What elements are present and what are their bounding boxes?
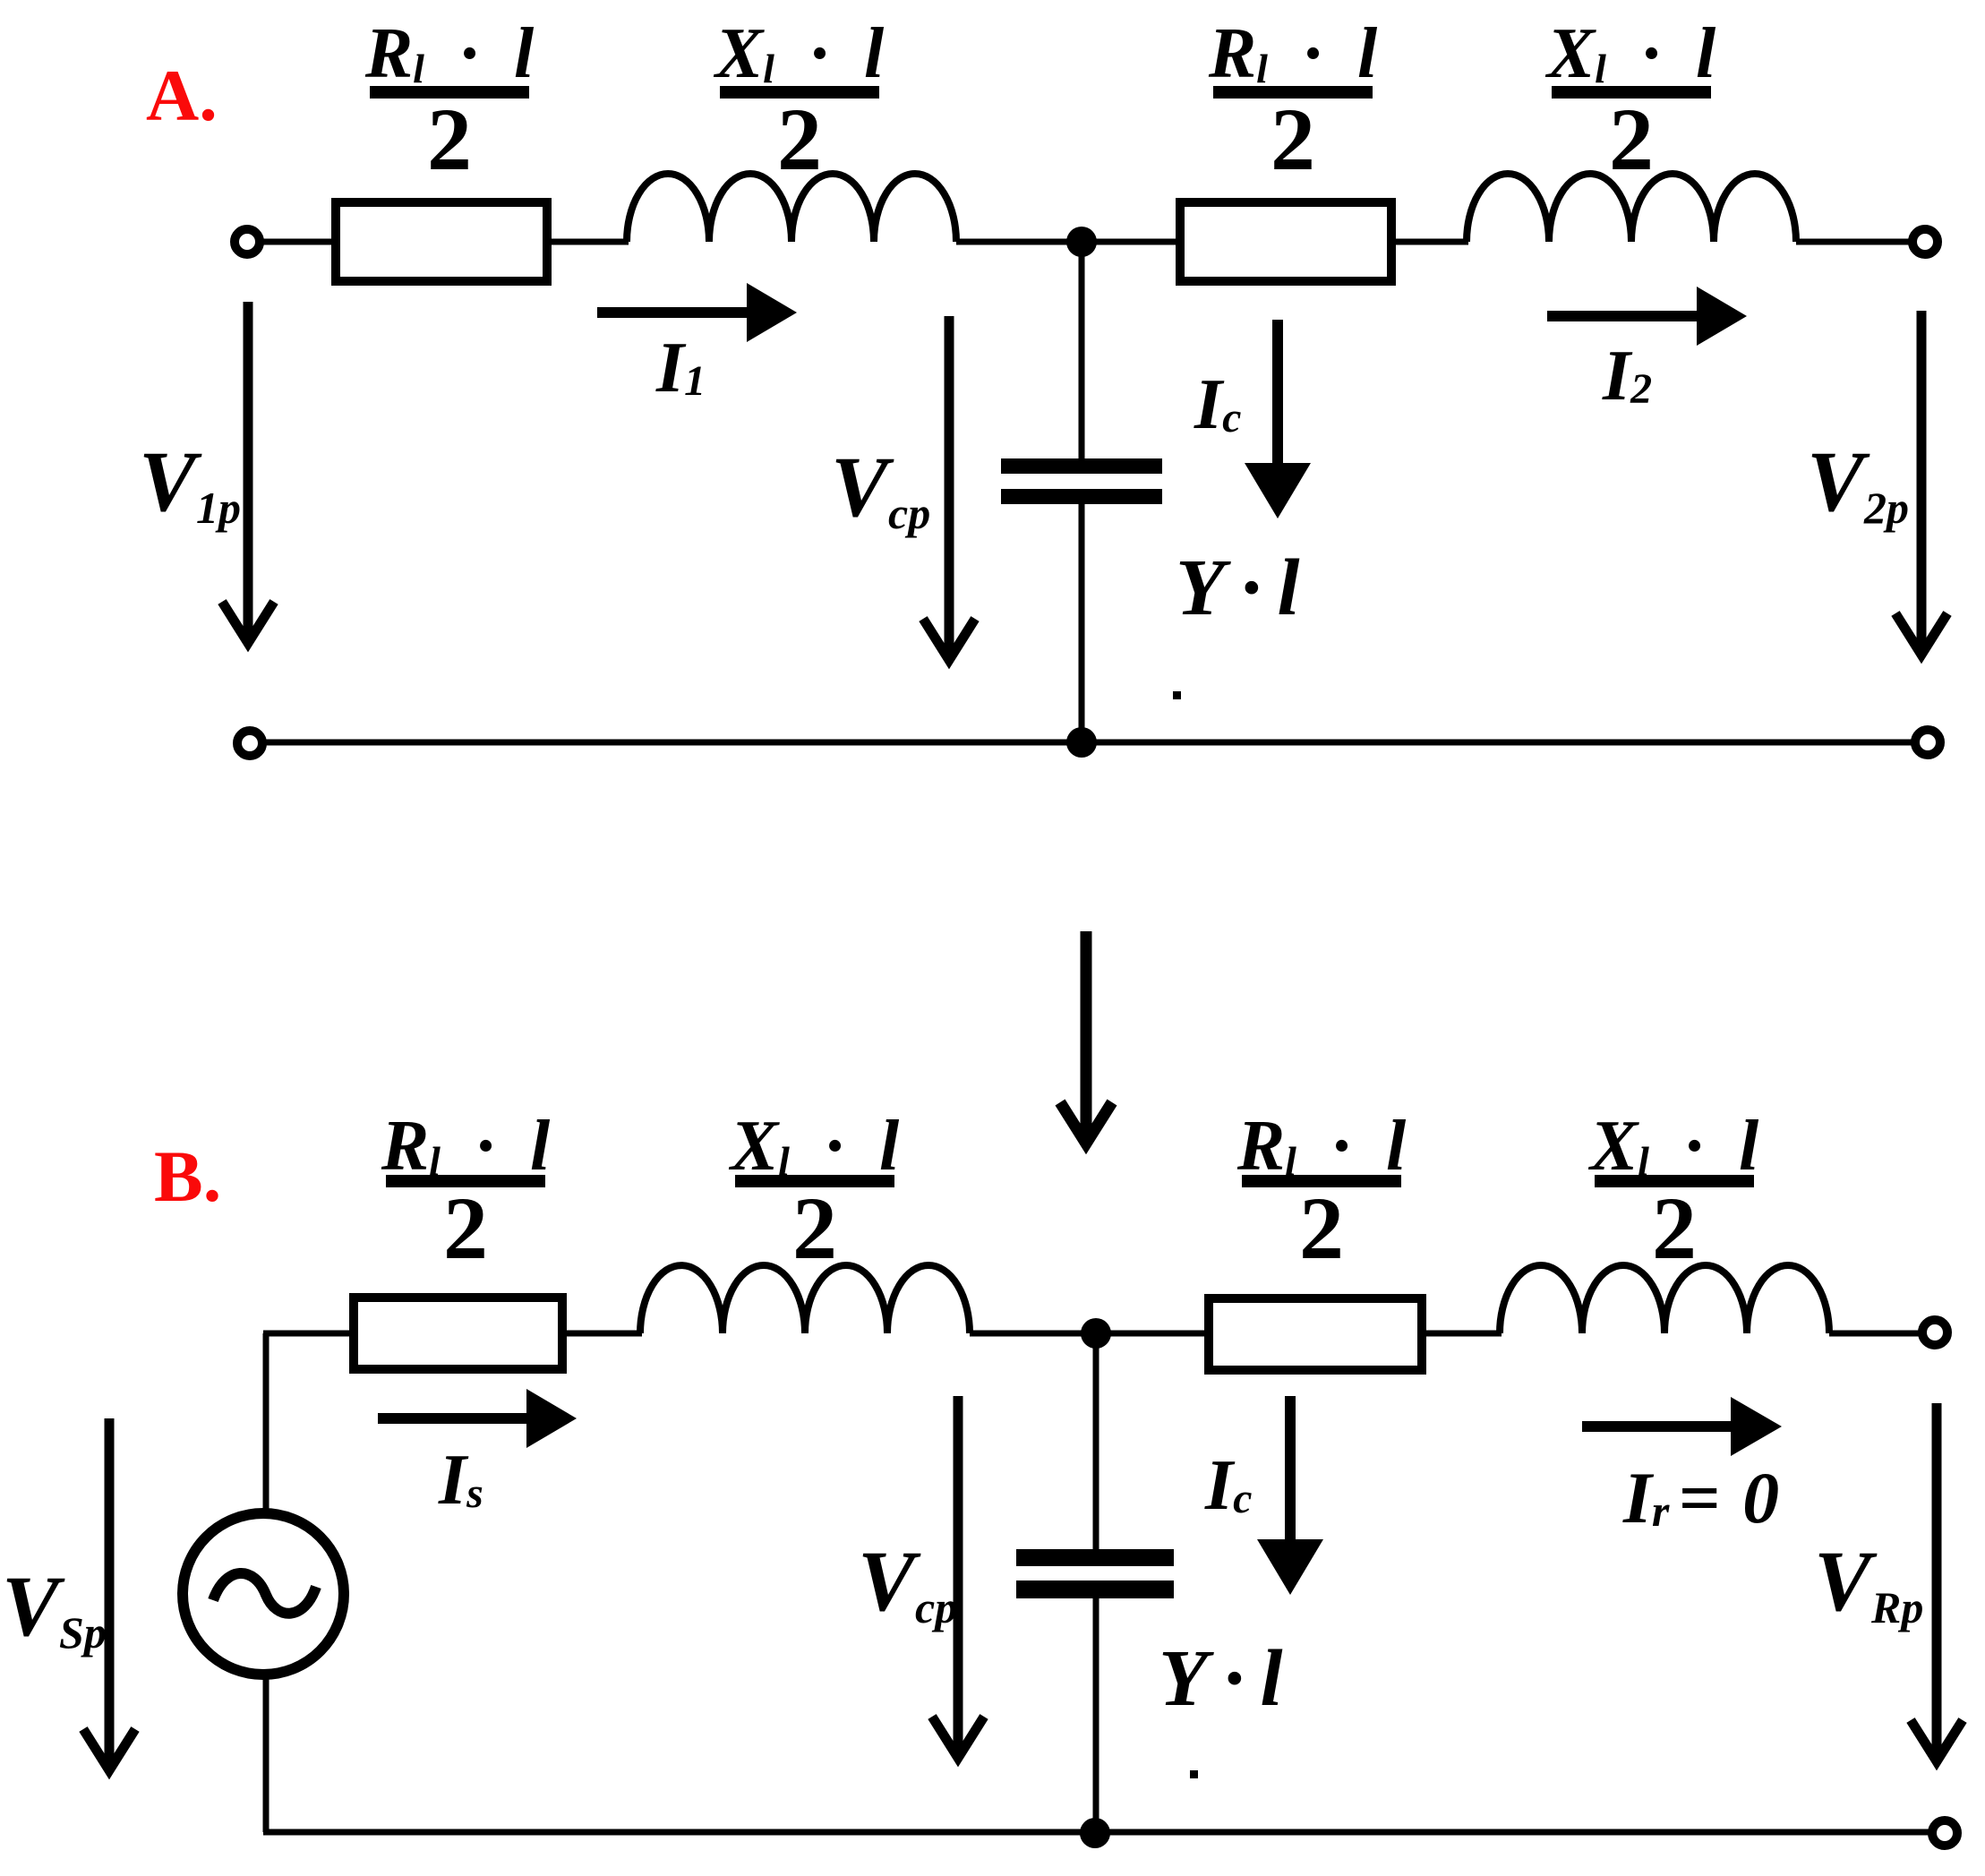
wire (B bottom rail)	[263, 1829, 1932, 1836]
resistor R1 (A, Rl·l/2 left)	[336, 202, 547, 281]
wire (B top rail to R3)	[263, 1331, 354, 1337]
svg-text:Ir=0: Ir=0	[1622, 1457, 1801, 1538]
arrow Vcp (A capacitor voltage)	[945, 316, 954, 660]
capacitor C2 top plate (B, Y·l)	[1016, 1549, 1174, 1566]
svg-text:2: 2	[792, 1178, 837, 1278]
terminal (A bottom-left)	[237, 731, 262, 756]
svg-text:Xl · l: Xl · l	[728, 1107, 900, 1186]
wire (A L2 to right terminal)	[1796, 239, 1912, 245]
wire (B shunt, node to capacitor)	[1093, 1333, 1099, 1551]
ac source sine wave	[213, 1573, 316, 1614]
svg-text:Rl · l: Rl · l	[1208, 14, 1378, 93]
wire (A bottom rail)	[264, 740, 1913, 746]
wire (A R2 to L2)	[1391, 239, 1468, 245]
arrow Vcp (B capacitor voltage)	[954, 1396, 963, 1758]
svg-text:B.: B.	[154, 1135, 221, 1217]
stray dot (A bottom)	[1173, 691, 1181, 699]
wire (A shunt, node to capacitor)	[1079, 242, 1085, 460]
svg-text:2: 2	[1299, 1178, 1344, 1278]
capacitor C2 bottom plate (B, Y·l)	[1016, 1580, 1174, 1598]
svg-text:2: 2	[427, 90, 472, 189]
wire (A capacitor to bottom rail)	[1079, 502, 1085, 742]
svg-text:Rl · l: Rl · l	[364, 14, 535, 93]
svg-text:Xl · l: Xl · l	[1587, 1107, 1759, 1186]
arrow Ir=0 (B receiving current)	[1582, 1421, 1731, 1432]
node (B top, shunt tap)	[1081, 1318, 1111, 1349]
svg-text:VSp: VSp	[2, 1558, 107, 1658]
node (B bottom rail junction)	[1080, 1818, 1110, 1848]
wire (B source to top rail, vertical)	[263, 1333, 270, 1513]
arrow Is (B source current)	[378, 1413, 526, 1424]
svg-text:Y · l: Y · l	[1159, 1634, 1283, 1723]
svg-text:Ic: Ic	[1204, 1446, 1252, 1525]
capacitor C1 bottom plate (A, Y·l)	[1001, 489, 1162, 504]
wire (B R4 to L4)	[1422, 1331, 1502, 1337]
wire (B L4 to right terminal)	[1829, 1331, 1922, 1337]
node (A top, shunt tap)	[1066, 227, 1097, 257]
svg-text:Ic: Ic	[1194, 365, 1241, 444]
svg-text:2: 2	[777, 90, 822, 189]
terminal (B bottom-right)	[1932, 1820, 1957, 1846]
node (A bottom rail junction)	[1066, 727, 1097, 758]
svg-text:Y · l: Y · l	[1176, 544, 1300, 632]
resistor R2 (A, Rl·l/2 right)	[1180, 202, 1391, 281]
wire (B L3 to node)	[970, 1331, 1209, 1337]
arrow Ic (A capacitor current)	[1272, 320, 1283, 475]
arrow VRp (B receiving voltage)	[1932, 1403, 1942, 1761]
stray dot (B bottom)	[1190, 1770, 1198, 1778]
ac source Vs (B, circle)	[183, 1513, 344, 1675]
svg-text:Xl · l: Xl · l	[1544, 14, 1716, 93]
arrow V2p (A right voltage)	[1917, 311, 1927, 655]
arrow VSp (B source voltage)	[105, 1418, 115, 1770]
svg-text:V1p: V1p	[139, 433, 241, 533]
wire (A top-left terminal to R1)	[262, 239, 336, 245]
inductor L3 (B, Xl·l/2 left)	[640, 1265, 970, 1333]
arrow (A transforms to B)	[1081, 931, 1092, 1137]
wire (A L1 to node)	[956, 239, 1180, 245]
arrow V1p (A left voltage)	[244, 302, 253, 643]
resistor R3 (B, Rl·l/2 left)	[354, 1298, 562, 1369]
terminal (A top-left)	[235, 229, 260, 254]
svg-text:Vcp: Vcp	[831, 439, 930, 538]
inductor L4 (B, Xl·l/2 right)	[1500, 1265, 1829, 1333]
terminal (B top-right)	[1922, 1320, 1947, 1345]
svg-text:2: 2	[1271, 90, 1315, 189]
wire (A R1 to L1)	[547, 239, 629, 245]
svg-text:2: 2	[1609, 90, 1654, 189]
wire (B source bottom to rail)	[263, 1678, 270, 1832]
wire (B R3 to L3)	[562, 1331, 642, 1337]
arrow Ic (B capacitor current)	[1285, 1396, 1296, 1552]
svg-text:VRp: VRp	[1814, 1533, 1923, 1632]
terminal (A top-right)	[1912, 229, 1938, 254]
inductor L2 (A, Xl·l/2 right)	[1467, 174, 1796, 242]
svg-text:A.: A.	[146, 55, 218, 136]
svg-text:Vcp: Vcp	[858, 1533, 957, 1632]
capacitor C1 top plate (A, Y·l)	[1001, 458, 1162, 474]
inductor L1 (A, Xl·l/2 left)	[627, 174, 956, 242]
terminal (A bottom-right)	[1915, 730, 1940, 755]
resistor R4 (B, Rl·l/2 right)	[1209, 1298, 1422, 1370]
svg-text:Is: Is	[438, 1441, 483, 1520]
svg-text:Xl · l: Xl · l	[713, 14, 885, 93]
svg-text:2: 2	[443, 1178, 488, 1278]
svg-text:I1: I1	[655, 329, 706, 407]
arrow I2 (A current right)	[1547, 311, 1697, 321]
svg-text:Rl · l: Rl · l	[381, 1107, 551, 1186]
svg-text:2: 2	[1652, 1178, 1697, 1278]
arrow I1 (A current left)	[597, 307, 747, 318]
svg-text:I2: I2	[1602, 337, 1652, 415]
wire (B capacitor to bottom rail)	[1093, 1597, 1099, 1832]
svg-text:V2p: V2p	[1807, 433, 1909, 533]
svg-text:Rl · l: Rl · l	[1236, 1107, 1407, 1186]
